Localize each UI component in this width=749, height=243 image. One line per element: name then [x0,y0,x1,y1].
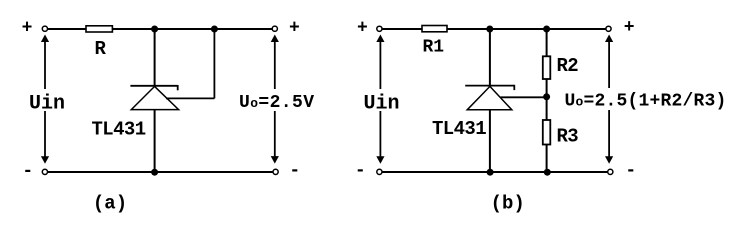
svg-text:TL431: TL431 [92,118,146,140]
node junction dot 1 top rail (b) [486,26,493,33]
node junction dot bottom rail anode (b) [487,169,494,176]
wire top to R2 [546,29,548,56]
Uo measurement arrow (a) [271,35,279,164]
Uo measurement arrow (b) [605,35,613,164]
node + terminal top-left (a) [22,19,48,39]
wire reference pin to divider node (b) [501,96,547,98]
Uin measurement arrow (b) [364,35,400,164]
node - terminal bottom-left (b) [355,161,382,181]
wire R2 to R3 [546,79,548,120]
node - terminal bottom-right (a) [273,161,300,181]
wire top rail right segment (a) [112,28,272,30]
node junction dot 2 top rail (a) [211,26,218,33]
Uo label (a) [236,90,316,113]
wire R3 to bottom rail [546,145,548,173]
svg-text:(b): (b) [491,193,525,215]
svg-text:TL431: TL431 [432,118,486,140]
anode lead TL431 (a) [154,110,156,172]
node - terminal bottom-left (a) [22,162,47,182]
svg-text:(a): (a) [93,193,127,215]
Uo label (b) [562,89,727,112]
wire top rail right segment (b) [447,28,606,30]
node junction dot 1 top rail (a) [151,26,158,33]
resistor R [86,26,112,60]
wire bottom rail (a) [48,171,274,173]
node junction dot 2 top rail (b) [543,26,550,33]
svg-text:R1: R1 [423,38,445,58]
svg-text:-: - [289,161,300,181]
node + terminal top-right (a) [272,19,300,39]
svg-text:+: + [22,19,33,39]
svg-text:+: + [289,19,300,39]
resistor R2 [543,55,579,79]
wire bottom rail (b) [382,171,608,173]
node + terminal top-right (b) [606,18,635,38]
svg-text:-: - [625,161,636,181]
svg-text:Uo=2.5(1+R2/R3): Uo=2.5(1+R2/R3) [565,92,727,112]
node - terminal bottom-right (b) [608,161,637,181]
svg-text:Uin: Uin [364,93,400,116]
wire top rail left segment (b) [382,28,422,30]
resistor R3 [543,120,579,148]
wire reference pin to cathode (a) [166,29,214,98]
svg-text:+: + [624,18,635,38]
op-amp U2 TL431 symbol (b) [465,85,514,110]
anode lead TL431 (b) [489,110,491,172]
svg-text:-: - [355,161,366,181]
node junction dot bottom rail divider (b) [544,169,551,176]
svg-text:R3: R3 [557,126,579,148]
cathode lead TL431 (b) [489,29,491,86]
cathode lead TL431 (a) [154,29,156,86]
Uin measurement arrow (a) [29,35,65,164]
svg-text:R: R [95,38,107,60]
svg-text:Uo=2.5V: Uo=2.5V [239,93,314,113]
svg-text:-: - [22,162,33,182]
node + terminal top-left (b) [357,19,382,39]
node divider junction dot (b) [543,93,550,100]
resistor R1 [422,26,447,58]
op-amp U1 TL431 symbol (a) [130,85,178,110]
node junction dot bottom rail (a) [151,169,158,176]
svg-text:Uin: Uin [29,93,65,116]
wire top rail left segment (a) [48,28,87,30]
svg-text:R2: R2 [557,55,579,77]
svg-text:+: + [357,19,368,39]
